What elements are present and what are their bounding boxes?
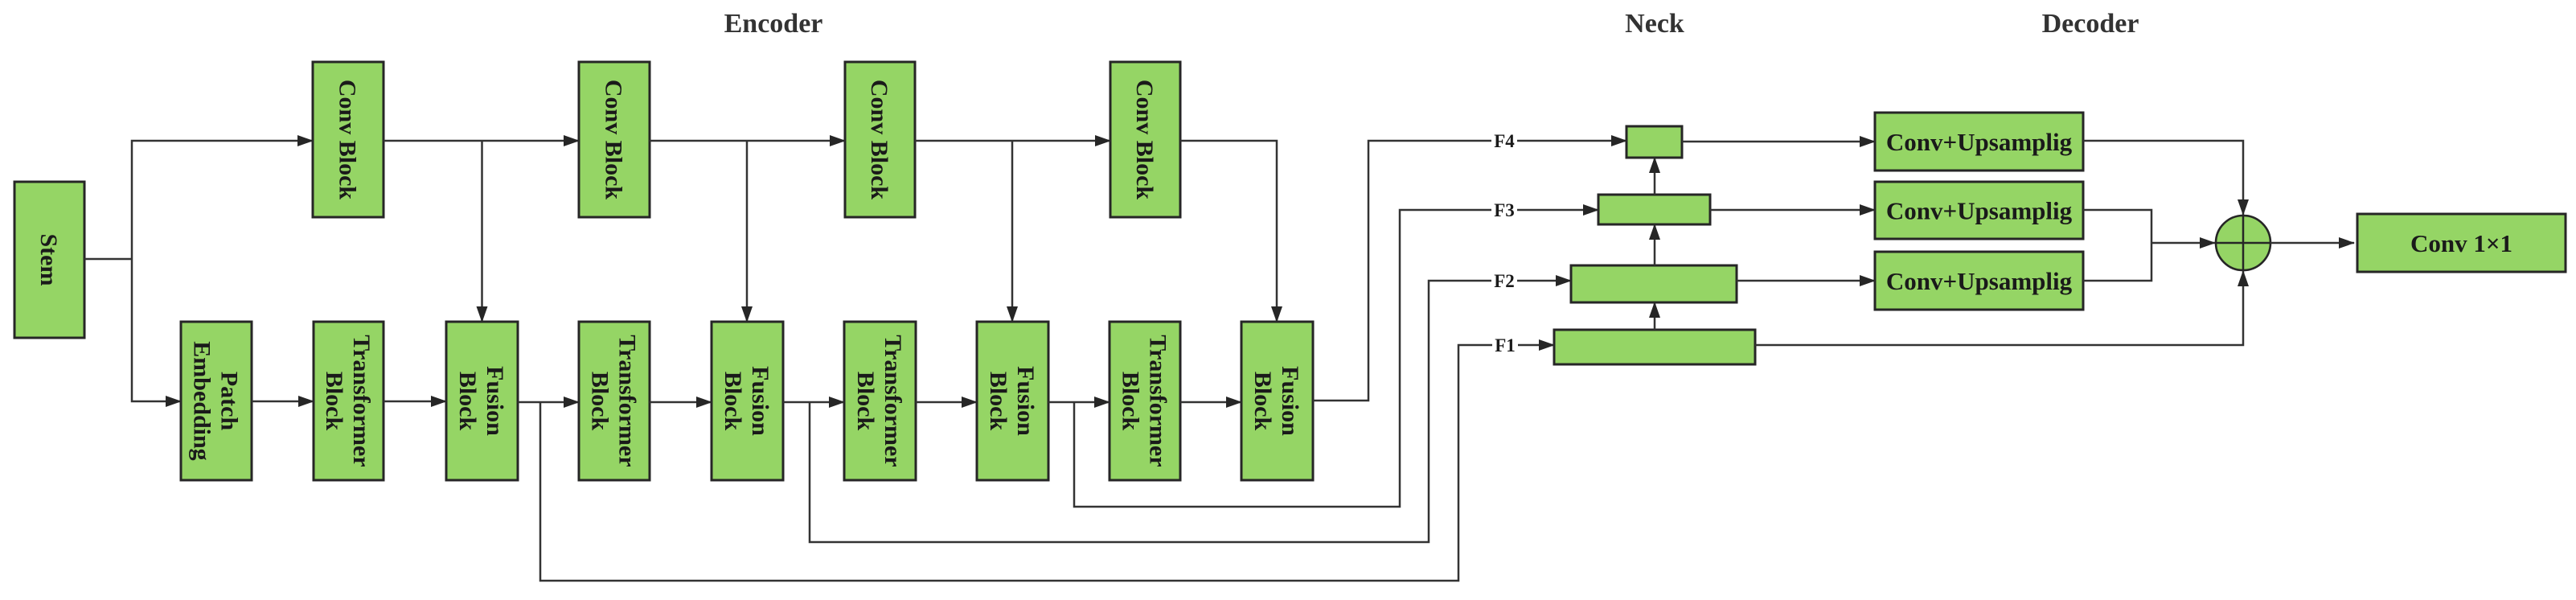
svg-text:Block: Block xyxy=(1249,372,1276,431)
decoder block Conv+Upsamplig 2 xyxy=(1875,182,2083,239)
wire Transformer Block 4 to Fusion Block 4 xyxy=(1180,401,1241,404)
conv block 4 xyxy=(1110,62,1180,217)
svg-text:F1: F1 xyxy=(1495,335,1516,355)
svg-text:Patch: Patch xyxy=(216,372,243,431)
svg-text:Fusion: Fusion xyxy=(482,366,508,436)
wire F1 tap from Fusion Block 1 to neck box F1 xyxy=(540,345,1554,581)
svg-text:Encoder: Encoder xyxy=(724,9,823,39)
svg-text:Conv Block: Conv Block xyxy=(866,80,892,200)
svg-text:Transformer: Transformer xyxy=(880,335,906,466)
wire Fusion Block 3 to Transformer Block 4 xyxy=(1048,401,1110,404)
svg-text:Block: Block xyxy=(720,372,746,431)
wire neck F3 to Conv+Upsamplig 2 xyxy=(1710,209,1875,212)
wire Transformer Block 2 to Fusion Block 2 xyxy=(650,401,712,404)
svg-text:Transformer: Transformer xyxy=(348,335,375,466)
svg-text:Embedding: Embedding xyxy=(189,341,215,460)
transformer block 3 xyxy=(844,322,916,480)
wire Conv+Upsamplig 2 to merge junction xyxy=(2083,210,2151,243)
wire Patch Embedding to Transformer Block 1 xyxy=(252,401,314,403)
wire neck F3 up to F4 xyxy=(1654,158,1656,195)
neck feature box F2 xyxy=(1571,265,1737,302)
decoder block Conv+Upsamplig 1 xyxy=(1875,113,2083,171)
svg-text:F4: F4 xyxy=(1494,131,1515,151)
wire Transformer Block 1 to Fusion Block 1 xyxy=(384,401,446,403)
decoder block Conv+Upsamplig 3 xyxy=(1875,252,2083,310)
adder circle (element-wise sum) xyxy=(2216,216,2270,270)
svg-text:Block: Block xyxy=(1118,372,1144,431)
wire branch down to Fusion Block 3 top xyxy=(1011,141,1014,322)
neck feature box F3 xyxy=(1598,195,1710,224)
wire F4 tap from Fusion Block 4 to neck box F4 xyxy=(1313,141,1626,401)
label transformer block 2 xyxy=(587,335,641,466)
svg-text:Decoder: Decoder xyxy=(2042,9,2139,39)
wire neck F4 to Conv+Upsamplig 1 xyxy=(1682,141,1875,143)
conv block 3 xyxy=(845,62,915,217)
svg-text:Conv 1×1: Conv 1×1 xyxy=(2410,229,2512,257)
conv block 1 xyxy=(313,62,384,217)
node label F3 xyxy=(1491,200,1517,220)
wire F2 tap from Fusion Block 2 to neck box F2 xyxy=(810,281,1571,542)
svg-text:Conv+Upsamplig: Conv+Upsamplig xyxy=(1886,267,2073,295)
wire Conv Block 2 to Conv Block 3 xyxy=(650,140,845,142)
fusion block 4 xyxy=(1241,322,1313,480)
svg-text:Conv+Upsamplig: Conv+Upsamplig xyxy=(1886,196,2073,224)
wire Fusion Block 1 to Transformer Block 2 xyxy=(518,401,579,404)
label conv block 4 xyxy=(1131,80,1158,200)
label conv block 1 xyxy=(334,80,361,200)
label fusion block 1 xyxy=(454,366,508,436)
svg-text:Conv Block: Conv Block xyxy=(334,80,361,200)
transformer block 2 xyxy=(579,322,650,480)
label transformer block 3 xyxy=(852,335,906,466)
svg-text:Block: Block xyxy=(587,372,613,431)
svg-text:F2: F2 xyxy=(1494,271,1515,291)
wire merge junction to adder left xyxy=(2151,242,2215,245)
svg-text:Transformer: Transformer xyxy=(1145,335,1171,466)
output block Conv 1x1 xyxy=(2357,214,2566,272)
svg-text:Neck: Neck xyxy=(1625,9,1684,39)
label fusion block 4 xyxy=(1249,366,1303,436)
wire neck F2 to Conv+Upsamplig 3 xyxy=(1737,280,1875,282)
node label F2 xyxy=(1491,271,1517,291)
svg-text:F3: F3 xyxy=(1494,200,1515,220)
wire junction down to Patch Embedding xyxy=(132,259,181,401)
svg-text:Transformer: Transformer xyxy=(614,335,641,466)
wire junction up to Conv Block 1 xyxy=(132,141,313,259)
conv block 2 xyxy=(579,62,650,217)
svg-text:Block: Block xyxy=(454,372,481,431)
wire adder to Conv 1x1 xyxy=(2270,242,2354,245)
neck feature box F1 xyxy=(1554,330,1755,364)
label conv block 3 xyxy=(866,80,892,200)
label transformer block 4 xyxy=(1118,335,1171,466)
label conv block 2 xyxy=(601,80,627,200)
wire neck F1 up to F2 xyxy=(1654,302,1656,330)
transformer block 4 xyxy=(1110,322,1180,480)
svg-text:Block: Block xyxy=(321,372,347,431)
wire Fusion Block 2 to Transformer Block 3 xyxy=(783,401,844,404)
fusion block 1 xyxy=(446,322,518,480)
fusion block 2 xyxy=(712,322,783,480)
svg-text:Conv+Upsamplig: Conv+Upsamplig xyxy=(1886,128,2073,156)
transformer block 1 xyxy=(314,322,384,480)
svg-text:Fusion: Fusion xyxy=(747,366,773,436)
wire Conv+Upsamplig 3 to merge junction xyxy=(2083,243,2151,281)
wire branch down to Fusion Block 1 top xyxy=(481,141,483,322)
svg-text:Block: Block xyxy=(852,372,879,431)
wire Stem output to junction xyxy=(84,258,132,261)
wire neck F1 long line to adder bottom xyxy=(1755,271,2243,345)
svg-text:Conv Block: Conv Block xyxy=(601,80,627,200)
wire neck F2 up to F3 xyxy=(1654,224,1656,265)
node label F1 xyxy=(1492,335,1518,355)
label fusion block 2 xyxy=(720,366,773,436)
wire Conv+Upsamplig 1 to adder top xyxy=(2083,141,2243,215)
wire Conv Block 1 to Conv Block 2 xyxy=(384,140,579,142)
wire F3 tap from Fusion Block 3 to neck box F3 xyxy=(1074,210,1598,507)
svg-text:Stem: Stem xyxy=(35,234,62,286)
fusion block 3 xyxy=(977,322,1048,480)
label fusion block 3 xyxy=(985,366,1039,436)
label Patch Embedding xyxy=(189,341,243,460)
node label F4 xyxy=(1491,131,1517,151)
wire Transformer Block 3 to Fusion Block 3 xyxy=(916,401,977,404)
wire Conv Block 4 down to Fusion Block 4 top xyxy=(1180,141,1277,322)
label transformer block 1 xyxy=(321,335,375,466)
svg-text:Conv Block: Conv Block xyxy=(1131,80,1158,200)
block Patch Embedding xyxy=(181,322,252,480)
svg-text:Fusion: Fusion xyxy=(1012,366,1039,436)
svg-text:Block: Block xyxy=(985,372,1011,431)
label Stem xyxy=(35,234,62,286)
wire branch down to Fusion Block 2 top xyxy=(746,141,749,322)
block Stem xyxy=(14,182,84,338)
neck feature box F4 xyxy=(1626,126,1682,158)
svg-text:Fusion: Fusion xyxy=(1277,366,1303,436)
wire Conv Block 3 to Conv Block 4 xyxy=(915,140,1110,142)
